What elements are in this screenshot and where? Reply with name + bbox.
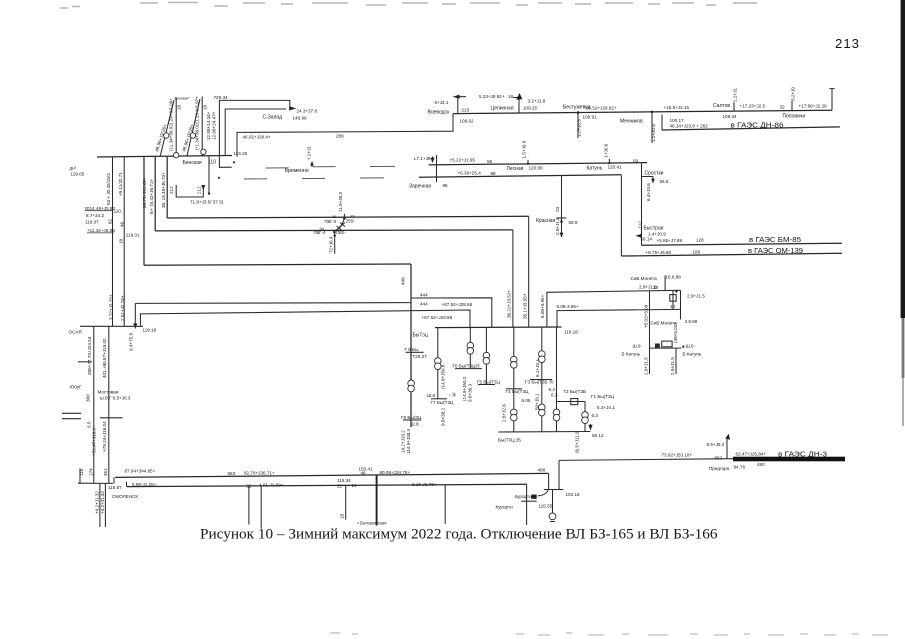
- svg-text:(*1.34+38.02(1.13-3.5.97+: (*1.34+38.02(1.13-3.5.97+: [195, 96, 200, 150]
- machine Курортная generator: [549, 490, 556, 522]
- svg-text:+6.36+25.4: +6.36+25.4: [458, 171, 482, 176]
- svg-text:5.98-J1.28+: 5.98-J1.28+: [132, 482, 157, 487]
- svg-text:БыТэц: БыТэц: [413, 333, 428, 339]
- svg-text:108.91: 108.91: [583, 115, 597, 120]
- svg-text:119.31: 119.31: [126, 232, 140, 237]
- left measurement labels 11.42 block: [87, 228, 140, 244]
- svg-text:174: 174: [89, 468, 94, 476]
- svg-text:11.9+J6.3: 11.9+J6.3: [338, 192, 343, 212]
- generator Г3 branch: [525, 328, 554, 432]
- svg-text:6.05: 6.05: [522, 398, 531, 403]
- node Курортная breaker: [496, 494, 553, 510]
- svg-text:114.9+J38.4: 114.9+J38.4: [406, 428, 411, 454]
- transformer branch Бенская T1 (slanted): [154, 100, 174, 156]
- wire riser x167 down from bus-D: [161, 157, 167, 218]
- svg-text:12.88+14.34+: 12.88+14.34+: [206, 111, 211, 140]
- svg-text:1.4+J0.9: 1.4+J0.9: [648, 231, 666, 236]
- svg-text:ПВ2-: ПВ2-: [336, 230, 346, 235]
- svg-text:0.2+J0: 0.2+J0: [791, 87, 796, 101]
- generator Г6 branch: [453, 328, 483, 403]
- svg-text:58.12: 58.12: [592, 433, 604, 438]
- wire riser x411 from y264 line down to Г8: [401, 264, 412, 427]
- svg-text:(6.5+J11.9: (6.5+J11.9: [575, 431, 580, 453]
- svg-text:(48+5.02+: (48+5.02+: [673, 322, 678, 343]
- svg-text:498: 498: [538, 467, 546, 472]
- svg-text:56.5: 56.5: [660, 179, 669, 184]
- svg-text:115.87: 115.87: [108, 485, 122, 490]
- svg-text:6.3: 6.3: [592, 413, 599, 418]
- svg-text:Салтов: Салтов: [713, 103, 730, 109]
- svg-text:Г 8 Бы: Г 8 Бы: [405, 347, 419, 352]
- svg-text:120.41: 120.41: [608, 165, 622, 170]
- svg-text:Мостовая: Мостовая: [98, 389, 119, 394]
- svg-text:80.08+J34.78+: 80.08+J34.78+: [380, 470, 411, 475]
- svg-text:90.52+J29.82+: 90.52+J29.82+: [586, 106, 617, 111]
- svg-text:+9.11/J2.71: +9.11/J2.71: [118, 172, 123, 196]
- labels bus-C: [409, 171, 496, 190]
- svg-text:109.62: 109.62: [460, 119, 474, 124]
- svg-text:59: 59: [487, 159, 493, 164]
- svg-text:+87.52+J28.68: +87.52+J28.68: [422, 315, 453, 320]
- wire long line y265 to x411: [144, 264, 411, 265]
- svg-text:119.26: 119.26: [234, 151, 248, 156]
- wire feeders below bus-E2 centre: [249, 475, 445, 529]
- svg-text:82: 82: [108, 218, 113, 224]
- svg-text:215: 215: [462, 108, 470, 113]
- svg-text:+5.85+J7.89: +5.85+J7.89: [657, 238, 683, 243]
- svg-text:148.99: 148.99: [293, 116, 307, 121]
- svg-text:Поповичи: Поповичи: [783, 114, 806, 120]
- svg-text:Г4 Бы(Т3Ц: Г4 Бы(Т3Ц: [506, 389, 530, 394]
- wire bus-B: [429, 163, 648, 165]
- svg-text:36.22+J3.52+: 36.22+J3.52+: [507, 290, 512, 318]
- svg-text:Б Катунь: Б Катунь: [622, 351, 641, 356]
- svg-text:ш.б.Г 0.5+J0.3: ш.б.Г 0.5+J0.3: [100, 395, 131, 400]
- svg-text:112: 112: [638, 221, 643, 229]
- svg-text:↑ ⑮: ↑ ⑮: [448, 392, 457, 399]
- svg-text:Целинная: Целинная: [491, 106, 514, 112]
- svg-text:ПВГ-4: ПВГ-4: [314, 230, 326, 235]
- wire bus-E1: [115, 466, 549, 477]
- svg-text:2.8+J1.8: 2.8+J1.8: [555, 217, 560, 235]
- wire left drop x649 to Б.Катунь bar: [644, 290, 679, 348]
- node Мечников drop 1.2+J0.8: [620, 111, 656, 143]
- svg-text:109.34: 109.34: [723, 114, 737, 119]
- svg-text:6.08-3.95+: 6.08-3.95+: [557, 304, 579, 309]
- wire right drop x680: [681, 290, 698, 324]
- svg-text:56.9: 56.9: [569, 220, 578, 225]
- svg-text:213: 213: [835, 36, 860, 51]
- wire С-Запад lower link: [225, 109, 286, 155]
- svg-text:ПВГ-5: ПВГ-5: [325, 219, 337, 224]
- svg-text:Курортная: Курортная: [515, 494, 538, 499]
- svg-text:24.3+37.8: 24.3+37.8: [297, 109, 318, 114]
- svg-text:82.76+J36.71+: 82.76+J36.71+: [244, 471, 275, 476]
- node СиБ.Монета upper: [631, 275, 682, 291]
- svg-text:2.9+J1.5: 2.9+J1.5: [644, 357, 649, 375]
- svg-text:Бы(Т3Ц 35: Бы(Т3Ц 35: [498, 437, 521, 442]
- feeder arrow 6+J3.1 at Воеводск: [428, 95, 474, 124]
- svg-text:186: 186: [693, 249, 701, 254]
- wire risers ОСЯ bar to bus-E: [87, 326, 109, 483]
- svg-text:448: 448: [401, 277, 406, 285]
- svg-text:729.34: 729.34: [214, 95, 228, 100]
- svg-text:СМОЛЕНСК: СМОЛЕНСК: [112, 494, 138, 499]
- svg-text:Лесная: Лесная: [507, 166, 524, 172]
- svg-text:Мечников: Мечников: [620, 119, 643, 125]
- svg-text:2.16-J1.73+: 2.16-J1.73+: [412, 482, 437, 487]
- svg-text:32: 32: [780, 105, 786, 110]
- generator Г7 branch: [427, 328, 457, 427]
- svg-text:Г2 Бы(Т3Б: Г2 Бы(Т3Б: [564, 389, 587, 394]
- generator Г4 branch: [502, 328, 531, 432]
- svg-text:48: 48: [361, 470, 367, 475]
- svg-text:94.76: 94.76: [734, 465, 746, 470]
- node arrow 9.4+75.8 under line B corner: [129, 303, 138, 351]
- wire feeders below bus-E2 left: [95, 483, 106, 527]
- wire risers x513/x529 from long lines to bus-F: [507, 216, 529, 327]
- svg-text:Рисунок 10 – Зимний максимум 2: Рисунок 10 – Зимний максимум 2022 года. …: [200, 527, 718, 543]
- svg-text:Курортн: Курортн: [496, 505, 514, 510]
- svg-text:23: 23: [555, 206, 560, 212]
- svg-text:8.5+J5.2: 8.5+J5.2: [707, 442, 725, 447]
- wire line to ГАЭС БМ-85: [642, 235, 843, 245]
- svg-text:+17.66+J2.29: +17.66+J2.29: [799, 104, 828, 109]
- svg-text:+.2+J1: +.2+J1: [307, 146, 312, 160]
- svg-text:6.3: 6.3: [551, 392, 558, 397]
- svg-text:Бенская*: Бенская*: [175, 97, 191, 101]
- svg-text:+4.2+J1.32: +4.2+J1.32: [95, 491, 100, 514]
- svg-text:Г8 Бы(ЗЦ: Г8 Бы(ЗЦ: [401, 415, 422, 420]
- svg-text:С-Запад: С-Запад: [263, 115, 283, 121]
- svg-text:Г1 Бы(Т3Ц: Г1 Бы(Т3Ц: [591, 394, 615, 399]
- svg-text:87.94+344.85+: 87.94+344.85+: [125, 468, 156, 473]
- left edge marks 100уГ: [62, 362, 108, 483]
- wire riser x124 bus-D to ОСЯ bar: [118, 157, 125, 326]
- svg-text:Г3 Бы(Т3Б ⑮: Г3 Бы(Т3Б ⑮: [525, 379, 554, 386]
- svg-text:1.2+J0.8: 1.2+J0.8: [651, 124, 656, 142]
- svg-text:2.9+J1.5: 2.9+J1.5: [687, 294, 705, 299]
- svg-text:Бенская: Бенская: [183, 160, 202, 166]
- svg-text:1.2+J3.5: 1.2+J3.5: [577, 119, 582, 137]
- svg-text:80.75+J15.09+: 80.75+J15.09+: [142, 177, 147, 208]
- wire bus-C: [419, 175, 621, 178]
- svg-text:Б Катунь: Б Катунь: [683, 351, 702, 356]
- node bus-D left stub дн1: [70, 166, 85, 177]
- svg-text:Временно: Временно: [285, 168, 309, 174]
- node tap 1+J0.6 on bus-B: [604, 143, 611, 164]
- generator Г8 branch: [401, 347, 428, 454]
- svg-text:46.14+J23.8 + 282: 46.14+J23.8 + 282: [670, 124, 709, 129]
- scan artifact: bottom edge smudges: [330, 633, 888, 635]
- svg-text:2014.48+J5.82: 2014.48+J5.82: [85, 206, 116, 211]
- svg-text:652: 652: [715, 455, 723, 460]
- svg-text:(8.42+J6.71+: (8.42+J6.71+: [149, 179, 154, 206]
- feeder riser С-Запад-1 at Бенская: [169, 97, 191, 158]
- svg-text:12.98+24.47+: 12.98+24.47+: [212, 111, 217, 140]
- svg-text:Г6 Бы(Т3Ц⑮: Г6 Бы(Т3Ц⑮: [453, 362, 481, 369]
- svg-text:+11.42+J5.88: +11.42+J5.88: [87, 228, 115, 233]
- svg-text:46: 46: [120, 221, 125, 227]
- node Бенская feeder drop: [208, 157, 210, 195]
- svg-text:6.08+3.95+: 6.08+3.95+: [540, 294, 545, 318]
- node Мостовая: [98, 389, 131, 417]
- svg-text:10: 10: [653, 285, 659, 290]
- svg-text:Б+: Б+: [149, 208, 154, 214]
- node Целинная tap with arrow: [479, 93, 546, 113]
- svg-text:46.02+J28.4+: 46.02+J28.4+: [243, 134, 271, 139]
- svg-text:Т26.27: Т26.27: [413, 354, 428, 359]
- labels bus-B: [450, 158, 639, 173]
- svg-text:109.25: 109.25: [523, 106, 537, 111]
- svg-text:+5.02+3.09: +5.02+3.09: [644, 304, 649, 328]
- wire bus-E2 end riser: [526, 484, 528, 525]
- svg-text:Сростки: Сростки: [645, 170, 664, 176]
- svg-text:480: 480: [757, 462, 765, 467]
- svg-text:5.23+J0.92+: 5.23+J0.92+: [479, 94, 505, 99]
- svg-text:+15.5+J2.15: +15.5+J2.15: [664, 105, 690, 110]
- scan artifact: right edge black strip: [901, 0, 905, 426]
- svg-text:385+77.73+J24.54: 385+77.73+J24.54: [87, 336, 92, 375]
- svg-text:18: 18: [508, 94, 514, 99]
- svg-text:1+J0.6: 1+J0.6: [604, 143, 609, 157]
- wire line B from x135: [135, 302, 472, 307]
- wire riser x113 bus-D to ОСЯ bar: [106, 157, 114, 326]
- svg-text:6+J3.1: 6+J3.1: [435, 100, 449, 105]
- svg-text:380: 380: [86, 394, 91, 402]
- svg-text:+4.2+J1.32: +4.2+J1.32: [100, 491, 105, 514]
- wire riser x155 down from bus-D: [149, 157, 155, 231]
- wire С-Запад upper link: [219, 100, 317, 155]
- svg-text:115: 115: [79, 468, 84, 476]
- svg-text:ОСАЯ: ОСАЯ: [69, 329, 82, 334]
- svg-text:Катунь: Катунь: [587, 165, 603, 171]
- svg-text:+17.23+J2.5: +17.23+J2.5: [740, 104, 766, 109]
- wire lower 71.8 link bar: [169, 185, 224, 205]
- svg-text:6.1+J3.+: 6.1+J3.+: [535, 359, 540, 377]
- svg-text:8.7+24.2: 8.7+24.2: [86, 213, 104, 218]
- svg-text:120.08: 120.08: [529, 165, 543, 170]
- svg-text:(11.34+38.02(.24+3.5.09+: (11.34+38.02(.24+3.5.09+: [169, 98, 174, 151]
- svg-text:14.2+J10.2: 14.2+J10.2: [401, 430, 406, 453]
- generator Г2 branch with breaker box: [549, 328, 587, 454]
- wire dashed tie lower: [218, 177, 384, 179]
- svg-text:0.5: 0.5: [87, 421, 92, 428]
- svg-text:128: 128: [696, 237, 704, 242]
- svg-text:401 +80.87+J19.02: 401 +80.87+J19.02: [102, 338, 107, 378]
- svg-text:18: 18: [340, 513, 345, 519]
- svg-text:Г7 Бы(Т3Ц: Г7 Бы(Т3Ц: [431, 400, 455, 405]
- wire line A to bus-F riser x492: [411, 298, 492, 328]
- svg-text:119.07: 119.07: [85, 219, 99, 224]
- svg-text:6.4: 6.4: [549, 387, 556, 392]
- svg-text:+72.47+J19.9: +72.47+J19.9: [92, 427, 97, 456]
- feeder riser С-Запад-2 at Бенская: [195, 96, 208, 157]
- svg-text:95: 95: [443, 183, 449, 188]
- svg-text:110.: 110.: [114, 209, 123, 214]
- svg-text:в ГАЭС ДН-3: в ГАЭС ДН-3: [778, 449, 827, 458]
- generator Г1 branch: [582, 394, 615, 438]
- wire long line y230 to x513: [155, 230, 513, 231]
- svg-text:18: 18: [119, 238, 124, 244]
- svg-text:14: 14: [352, 483, 358, 488]
- svg-text:дн¹: дн¹: [70, 166, 77, 171]
- svg-text:18: 18: [177, 104, 182, 110]
- svg-text:100.17: 100.17: [670, 118, 684, 123]
- wire Б.Катунь bar with switch boxes: [622, 341, 702, 356]
- svg-text:3.8.98: 3.8.98: [685, 319, 698, 324]
- svg-text:102.18: 102.18: [566, 492, 580, 497]
- left measurement labels 2014.48 block: [85, 206, 125, 227]
- svg-text:288: 288: [336, 133, 344, 138]
- svg-text:36.1+J3.55+: 36.1+J3.55+: [523, 293, 528, 319]
- wire long line y218 to x529: [167, 216, 529, 218]
- node Красная tap on bus-C: [536, 176, 578, 238]
- svg-text:Ш.8: Ш.8: [411, 421, 419, 426]
- ОСЯ bar: [69, 326, 157, 334]
- scan artifact: top edge smudges: [60, 3, 757, 9]
- svg-text:+87.52+J28.68: +87.52+J28.68: [442, 302, 473, 307]
- svg-text:212: 212: [197, 186, 202, 194]
- svg-text:Красная: Красная: [536, 218, 556, 224]
- svg-text:583: 583: [228, 471, 236, 476]
- svg-text:+8.75+J6.86: +8.75+J6.86: [646, 250, 672, 255]
- svg-text:119.18: 119.18: [564, 329, 578, 334]
- wire bus-G lower station bar: [498, 432, 590, 443]
- node Поповичи tap: [780, 87, 828, 120]
- node Заречная entry arrow L7.1+J8: [414, 155, 437, 182]
- svg-text:88: 88: [491, 171, 497, 176]
- svg-text:38. 18.48+J6.73+: 38. 18.48+J6.73+: [161, 172, 166, 208]
- svg-text:(14.9+J50.6: (14.9+J50.6: [441, 364, 446, 389]
- svg-text:2.6+J2.6: 2.6+J2.6: [502, 404, 507, 422]
- wire bus-E1 end drop into Курортная: [538, 473, 549, 495]
- svg-text:в ГАЭС БМ-85: в ГАЭС БМ-85: [749, 235, 801, 244]
- node Салтов tap: [664, 88, 766, 119]
- svg-text:3.72+J3.25+: 3.72+J3.25+: [109, 294, 114, 320]
- svg-text:в ГАЭС ДН-86: в ГАЭС ДН-86: [731, 121, 784, 130]
- svg-text:16.8.98: 16.8.98: [666, 275, 682, 280]
- svg-text:5.3+J4.1: 5.3+J4.1: [597, 405, 615, 410]
- wire Сростки riser bus-B down to БМ-85 line: [641, 163, 643, 245]
- svg-text:18: 18: [203, 104, 208, 110]
- svg-text:Предгорн: Предгорн: [709, 466, 730, 471]
- wire bypass arc between lines: [335, 220, 344, 231]
- svg-text:10: 10: [670, 304, 676, 309]
- wire riser at Поповичи end: [829, 89, 834, 111]
- svg-text:73.92+J53.18+: 73.92+J53.18+: [662, 453, 693, 458]
- svg-text:21: 21: [337, 483, 343, 488]
- generator Г5 branch: [477, 328, 501, 385]
- svg-text:2.9+J1.5: 2.9+J1.5: [670, 357, 675, 375]
- breaker box between lines 1-2: [670, 290, 705, 310]
- svg-text:53 + J0.45/15/3: 53 + J0.45/15/3: [106, 173, 111, 205]
- svg-text:34: 34: [332, 215, 336, 219]
- svg-text:4.01-J1.09+: 4.01-J1.09+: [259, 482, 284, 487]
- svg-text:255/: 255/: [346, 218, 355, 223]
- wire line to ГАЭС ДН-86: [662, 114, 840, 130]
- svg-text:115.55: 115.55: [539, 504, 553, 509]
- wire line C from x140 to bus-F riser x470: [140, 310, 470, 327]
- svg-text:3.2+J1.8: 3.2+J1.8: [528, 99, 546, 104]
- svg-text:71.8+J3.5/ 57.5): 71.8+J3.5/ 57.5): [190, 200, 224, 205]
- svg-text:119.18: 119.18: [143, 327, 157, 332]
- wire line 1 from bus-F riser x547: [540, 290, 681, 327]
- svg-text:(14.9+J50.2: (14.9+J50.2: [462, 376, 467, 401]
- svg-text:▲Ш.9: ▲Ш.9: [681, 343, 694, 348]
- wire riser x144 down from bus-D: [142, 157, 147, 265]
- svg-text:СиБ.Монета: СиБ.Монета: [631, 276, 658, 281]
- wire bus-A Воеводск-Поповичи 110kV: [453, 110, 832, 113]
- svg-text:Г5 Бы(Т3Ц: Г5 Бы(Т3Ц: [477, 379, 501, 384]
- svg-text:119.05: 119.05: [71, 172, 85, 177]
- node tap 1.5+J0.9 on bus-B: [522, 140, 530, 165]
- wire T-bar 102.18: [544, 460, 580, 497]
- wire dashed tie upper: [219, 155, 395, 174]
- svg-text:Ю0уГ: Ю0уГ: [70, 385, 82, 390]
- svg-text:444: 444: [420, 293, 428, 298]
- wire line 2 from bus-F riser x557: [557, 304, 681, 327]
- node ПВГ-4 on lower line: [333, 231, 336, 234]
- svg-text:Заречная: Заречная: [409, 183, 431, 189]
- svg-text:72+J6.4: 72+J6.4: [329, 236, 334, 253]
- svg-text:451: 451: [103, 468, 108, 476]
- svg-text:1.5+J0.9: 1.5+J0.9: [522, 140, 527, 158]
- svg-text:9.4+75.8: 9.4+75.8: [129, 333, 134, 351]
- svg-text:2.51+J2.74+: 2.51+J2.74+: [120, 295, 125, 321]
- svg-text:• Белошинская: • Белошинская: [358, 520, 387, 525]
- svg-text:59: 59: [633, 158, 639, 163]
- node Бестужевка junction and drop 1.2+J3.5: [563, 105, 617, 139]
- svg-text:444: 444: [420, 302, 428, 307]
- wire bus-D Бенская 110kV: [97, 156, 232, 158]
- svg-text:Ш.9: Ш.9: [633, 343, 641, 348]
- svg-text:6.4+J4.6: 6.4+J4.6: [646, 183, 651, 201]
- wire stub risers below Б.Катунь bar: [644, 348, 677, 375]
- wire bus-F БыТэц: [413, 327, 579, 339]
- svg-text:Ш.8: Ш.8: [427, 393, 435, 398]
- svg-text:+5.22+J1.95: +5.22+J1.95: [450, 158, 476, 163]
- wire line to ГАЭС ОМ-139: [621, 175, 842, 256]
- node arrow 2+J1 on dashed tie: [307, 146, 314, 167]
- node Быстрая: [636, 221, 705, 243]
- svg-text:+79.24+J16.04: +79.24+J16.04: [102, 421, 107, 452]
- svg-text:в ГАЭС ОМ-139: в ГАЭС ОМ-139: [748, 246, 803, 255]
- svg-text:L7.1+J8: L7.1+J8: [414, 156, 431, 161]
- wire line to ГАЭС ДН-3 with heavy section: [559, 434, 845, 471]
- svg-text:9.6+36.3: 9.6+36.3: [468, 384, 473, 402]
- svg-text:Воеводск: Воеводск: [428, 110, 451, 116]
- transformer branch Бенская T2 (slanted): [181, 99, 200, 156]
- wire drop 72+J6.4: [334, 231, 336, 254]
- svg-text:1.2+J1: 1.2+J1: [733, 88, 738, 102]
- svg-text:56.14: 56.14: [641, 237, 653, 242]
- node ПВГ-5 on upper line: [343, 217, 346, 220]
- svg-text:62.47+J25,84+: 62.47+J25,84+: [736, 452, 767, 457]
- svg-text:9.8+38.2: 9.8+38.2: [441, 408, 446, 426]
- wire 46.02+J28.4 line to Воеводск: [237, 114, 453, 157]
- wire bus-E2: [78, 477, 527, 498]
- svg-text:212: 212: [169, 186, 174, 194]
